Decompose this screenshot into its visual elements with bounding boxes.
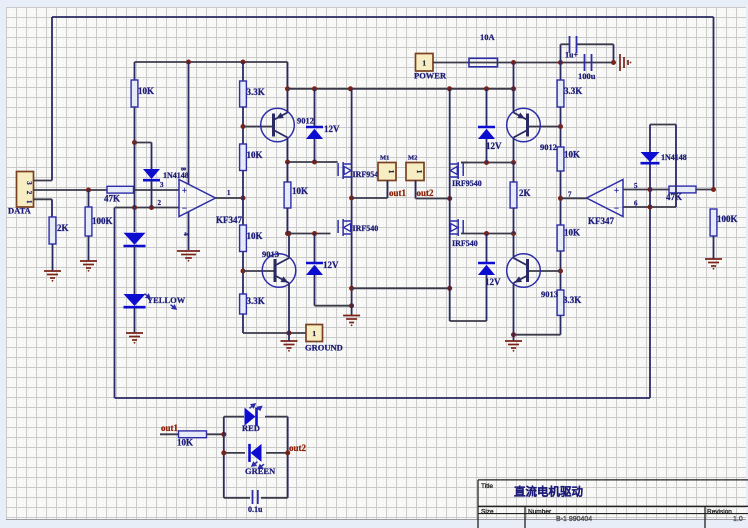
svg-text:10A: 10A	[480, 32, 496, 42]
svg-text:1u+: 1u+	[565, 51, 578, 60]
svg-text:3.3K: 3.3K	[563, 295, 581, 305]
svg-text:1N4148: 1N4148	[163, 171, 189, 180]
svg-text:+: +	[182, 186, 187, 196]
svg-text:KF347: KF347	[216, 215, 242, 225]
svg-text:10K: 10K	[564, 228, 580, 238]
svg-text:IRF9540: IRF9540	[452, 179, 482, 188]
svg-text:3.3K: 3.3K	[564, 86, 582, 96]
svg-text:9012: 9012	[540, 142, 557, 152]
svg-text:3.3K: 3.3K	[247, 296, 265, 306]
svg-text:M1: M1	[380, 155, 389, 162]
svg-text:0.1u: 0.1u	[248, 505, 263, 514]
svg-text:100K: 100K	[92, 216, 113, 226]
svg-text:Title: Title	[481, 483, 493, 490]
svg-text:10K: 10K	[247, 231, 263, 241]
svg-text:KF347: KF347	[588, 216, 614, 226]
svg-text:3: 3	[25, 181, 33, 185]
svg-text:YELLOW: YELLOW	[147, 295, 186, 305]
svg-text:12V: 12V	[486, 141, 502, 151]
svg-text:Number: Number	[528, 509, 552, 516]
svg-text:12V: 12V	[324, 124, 340, 134]
svg-text:B-1 990404: B-1 990404	[556, 516, 592, 523]
svg-text:GROUND: GROUND	[305, 343, 343, 353]
svg-text:9013: 9013	[541, 289, 558, 299]
svg-text:Revision: Revision	[707, 509, 732, 516]
svg-text:2: 2	[158, 199, 162, 207]
svg-text:2: 2	[25, 191, 33, 195]
svg-text:Size: Size	[481, 509, 494, 516]
svg-text:10K: 10K	[292, 186, 308, 196]
svg-text:out1: out1	[161, 423, 179, 433]
svg-text:9012: 9012	[297, 116, 314, 126]
svg-text:POWER: POWER	[414, 71, 447, 81]
svg-text:M2: M2	[408, 155, 417, 162]
svg-text:10K: 10K	[177, 438, 193, 448]
svg-text:−: −	[182, 203, 187, 213]
svg-text:100u: 100u	[578, 71, 596, 81]
svg-text:8: 8	[179, 167, 187, 171]
svg-text:47K: 47K	[104, 194, 120, 204]
svg-text:IRF540: IRF540	[452, 239, 478, 248]
svg-text:1: 1	[25, 200, 33, 204]
svg-text:GREEN: GREEN	[245, 466, 276, 476]
svg-text:2K: 2K	[57, 223, 69, 233]
svg-text:1N4148: 1N4148	[661, 153, 687, 162]
svg-text:IRF540: IRF540	[353, 224, 379, 233]
svg-text:1: 1	[227, 189, 231, 197]
svg-text:RED: RED	[242, 423, 260, 433]
svg-text:out1: out1	[389, 188, 407, 198]
svg-text:100K: 100K	[717, 214, 738, 224]
svg-text:+: +	[614, 186, 619, 196]
svg-text:10K: 10K	[564, 150, 580, 160]
svg-text:12V: 12V	[323, 260, 339, 270]
svg-text:−: −	[614, 203, 619, 213]
svg-text:10K: 10K	[138, 86, 154, 96]
svg-text:out2: out2	[289, 443, 307, 453]
svg-text:3.3K: 3.3K	[247, 87, 265, 97]
svg-text:1: 1	[387, 170, 396, 174]
svg-text:DATA: DATA	[8, 206, 32, 216]
svg-text:1: 1	[415, 170, 424, 174]
svg-text:2K: 2K	[519, 188, 531, 198]
svg-text:out2: out2	[417, 188, 435, 198]
svg-text:9013: 9013	[262, 249, 279, 259]
svg-text:4: 4	[182, 232, 190, 236]
svg-text:1.0: 1.0	[733, 516, 743, 523]
svg-text:1: 1	[312, 329, 316, 338]
svg-text:1: 1	[422, 58, 426, 67]
svg-text:10K: 10K	[247, 150, 263, 160]
svg-text:7: 7	[568, 191, 572, 199]
svg-text:直流电机驱动: 直流电机驱动	[514, 485, 583, 499]
svg-text:3: 3	[160, 181, 164, 189]
svg-text:47K: 47K	[666, 192, 682, 202]
